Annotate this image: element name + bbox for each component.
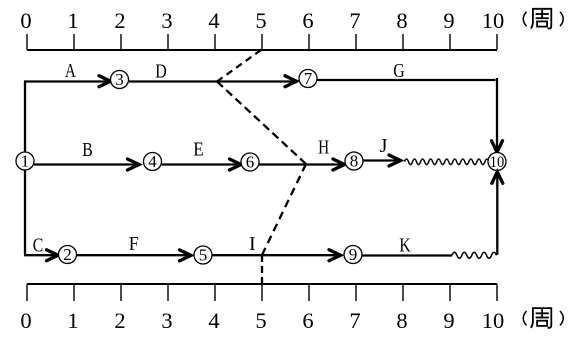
svg-text:4: 4 (208, 308, 219, 333)
bottom scale tick 9 (449, 284, 451, 301)
top scale tick 1 (73, 34, 75, 50)
activity G arrow (right then down into node 10) (317, 78, 503, 152)
svg-text:0: 0 (20, 8, 31, 33)
dashed time-cut line segment 4 (vertical down to bottom scale week 5) (261, 255, 263, 284)
activity B arrow (34, 159, 139, 170)
svg-text:I: I (249, 233, 256, 255)
free float wavy line after K (452, 252, 496, 258)
svg-text:1: 1 (67, 8, 78, 33)
svg-text:8: 8 (396, 308, 407, 333)
svg-text:C: C (33, 235, 44, 257)
node 2 (59, 245, 77, 264)
top scale tick 5 (261, 34, 263, 50)
node 4 (144, 152, 162, 171)
svg-text:1: 1 (21, 152, 30, 171)
bottom scale tick 4 (214, 284, 216, 301)
node 10 (488, 153, 506, 171)
dashed time-cut line segment 2 (from activity D line down to activity H line) (217, 82, 306, 165)
svg-text:6: 6 (302, 308, 313, 333)
bottom scale tick 2 (120, 284, 122, 301)
node 1 (16, 152, 34, 171)
bottom scale tick 8 (402, 284, 404, 301)
arrow into node 10 from below (end of K path) (492, 172, 503, 255)
activity J arrow (363, 155, 401, 166)
svg-text:9: 9 (349, 245, 358, 264)
svg-text:9: 9 (443, 308, 454, 333)
node 8 (345, 152, 363, 171)
top scale tick 9 (449, 34, 451, 50)
activity K line (362, 254, 452, 256)
svg-text:4: 4 (208, 8, 219, 33)
activity I arrow (213, 250, 341, 261)
activity C arrow (down from node 1 then right) (24, 170, 58, 261)
top scale unit (zhou = week) (523, 9, 563, 29)
svg-text:2: 2 (114, 8, 125, 33)
top scale tick 4 (214, 34, 216, 50)
top scale tick 8 (402, 34, 404, 50)
top scale tick 3 (167, 34, 169, 50)
svg-text:5: 5 (255, 308, 266, 333)
top scale tick 10 (496, 34, 498, 50)
bottom scale tick 3 (167, 284, 169, 301)
top scale tick 2 (120, 34, 122, 50)
svg-text:K: K (399, 235, 411, 257)
activity H arrow (259, 159, 345, 170)
dashed time-cut line segment 3 (from activity H line down to activity I line) (262, 164, 306, 255)
svg-text:8: 8 (396, 8, 407, 33)
svg-text:7: 7 (349, 8, 360, 33)
svg-text:0: 0 (20, 308, 31, 333)
top scale tick 6 (308, 34, 310, 50)
activity A arrow (24, 76, 111, 87)
bottom scale unit (zhou = week) (523, 308, 563, 328)
svg-text:H: H (318, 137, 329, 159)
top scale ruler line (27, 49, 497, 51)
top scale tick 7 (355, 34, 357, 50)
svg-text:5: 5 (255, 8, 266, 33)
svg-text:B: B (82, 139, 93, 161)
svg-text:E: E (193, 139, 204, 161)
node 9 (344, 245, 362, 264)
svg-text:3: 3 (161, 8, 172, 33)
svg-text:D: D (155, 61, 167, 83)
bottom scale tick 0 (26, 284, 28, 301)
top scale tick 0 (26, 34, 28, 50)
node 3 (111, 70, 129, 89)
free float wavy line after J (405, 159, 489, 165)
wire from node 1 up to activity A (24, 82, 26, 155)
svg-text:F: F (129, 233, 139, 255)
svg-text:9: 9 (443, 8, 454, 33)
svg-text:2: 2 (114, 308, 125, 333)
svg-text:6: 6 (246, 153, 255, 172)
node 5 (194, 246, 212, 265)
node 7 (299, 69, 317, 88)
svg-text:A: A (65, 60, 76, 82)
bottom scale tick 6 (308, 284, 310, 301)
activity E arrow (162, 159, 242, 170)
svg-text:4: 4 (148, 152, 157, 171)
svg-text:5: 5 (199, 246, 208, 265)
activity F arrow (77, 250, 192, 261)
bottom scale ruler line (27, 283, 497, 285)
svg-text:7: 7 (304, 69, 313, 88)
bottom scale tick 1 (73, 284, 75, 301)
bottom scale tick 5 (261, 284, 263, 301)
svg-text:10: 10 (482, 8, 505, 33)
svg-text:3: 3 (115, 70, 124, 89)
bottom scale tick 10 (496, 284, 498, 301)
svg-text:8: 8 (350, 152, 359, 171)
svg-text:10: 10 (482, 308, 505, 333)
svg-text:3: 3 (161, 308, 172, 333)
dashed time-cut line segment 1 (from top scale week 5 down to activity D line) (217, 50, 261, 82)
svg-text:2: 2 (63, 245, 72, 264)
svg-text:7: 7 (349, 308, 360, 333)
svg-text:10: 10 (490, 154, 505, 171)
bottom scale tick 7 (355, 284, 357, 301)
svg-text:J: J (380, 135, 388, 157)
activity D arrow (129, 76, 297, 87)
svg-text:G: G (393, 60, 405, 82)
svg-text:1: 1 (67, 308, 78, 333)
node 6 (241, 153, 259, 172)
svg-text:6: 6 (302, 8, 313, 33)
